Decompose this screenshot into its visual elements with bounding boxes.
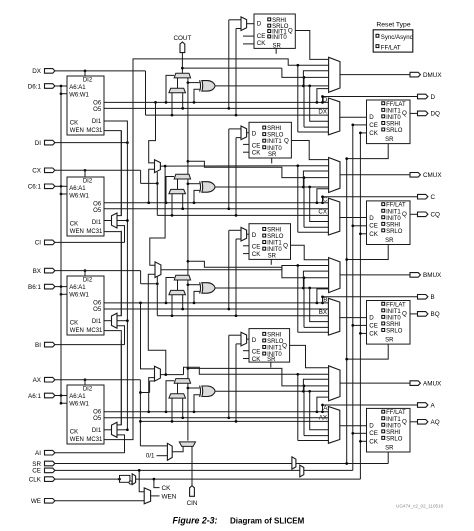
wire Q C to CQ pin (410, 213, 418, 215)
svg-text:COUT: COUT (173, 35, 191, 42)
carry mux MUXCY B (174, 275, 190, 280)
svg-text:INIT0: INIT0 (386, 423, 401, 429)
wire O6 D (104, 101, 328, 103)
wire MC31 to DFFMUX (297, 65, 299, 132)
wire LUT D MC31 (104, 131, 121, 216)
svg-text:SRLO: SRLO (267, 234, 284, 240)
svg-text:INIT0: INIT0 (386, 216, 401, 222)
svg-text:SR: SR (385, 446, 394, 452)
svg-text:Q: Q (402, 418, 407, 425)
wire O5 C (104, 208, 328, 210)
polarity mux CE (300, 465, 304, 477)
wire D6:1 to A6:A1/W6:W1 (55, 85, 61, 87)
svg-text:CIN: CIN (187, 500, 198, 507)
input mux B5FF (241, 227, 247, 241)
wire F8MUX out (161, 266, 329, 270)
svg-text:SRHI: SRHI (267, 332, 282, 338)
wires B5FF input mux (247, 233, 249, 235)
shift mux DI1 C (112, 213, 118, 228)
svg-text:0/1: 0/1 (146, 452, 155, 459)
svg-text:CX: CX (318, 209, 327, 216)
output pin D (418, 94, 428, 99)
FF input mux BFFMUX (328, 298, 339, 335)
carry mux MUXCY D (174, 73, 190, 78)
wire Q C5FF to OUTMUX (291, 141, 328, 160)
wire AX line (84, 378, 87, 381)
input mux C5FF (241, 126, 247, 140)
wire Q A5FF to OUTMUX (290, 345, 329, 367)
svg-text:FF/LAT: FF/LAT (386, 102, 406, 108)
svg-text:CE: CE (369, 430, 378, 437)
shift mux DI1 A (112, 422, 118, 437)
svg-text:DI1: DI1 (92, 119, 102, 125)
wire COUT (181, 53, 183, 73)
wire A MC31 to DOUTMUX (104, 59, 329, 440)
wire DI1 B (104, 320, 112, 322)
C6LUT C (67, 177, 104, 236)
wire DI1 A (104, 429, 112, 431)
svg-text:CQ: CQ (431, 212, 441, 219)
wire Q A to AQ pin (410, 421, 418, 423)
wire AI line (55, 452, 125, 454)
B6LUT B (67, 276, 104, 335)
wire O6 riser to COUTMUX (316, 201, 319, 204)
stub CE CFF (353, 225, 367, 227)
mux WEN gate (144, 488, 150, 504)
svg-text:FF/LAT: FF/LAT (381, 45, 401, 52)
wire O6 riser to C pin (323, 197, 418, 203)
wire AX dropped row (140, 420, 328, 422)
svg-text:A6:1: A6:1 (28, 393, 41, 400)
svg-text:Reset Type: Reset Type (376, 22, 410, 29)
svg-text:BQ: BQ (431, 311, 440, 318)
wire O5 A (104, 417, 328, 419)
svg-text:INIT0: INIT0 (386, 315, 401, 321)
svg-text:INIT1: INIT1 (386, 108, 401, 114)
svg-text:CE: CE (369, 122, 378, 129)
output mux BOUTMUX (329, 258, 340, 293)
wires F8MUX inputs (150, 166, 165, 265)
svg-text:CE: CE (369, 322, 378, 329)
A6LUT A (67, 385, 104, 444)
svg-text:O5: O5 (93, 107, 102, 113)
svg-text:DI2: DI2 (83, 78, 93, 84)
svg-text:A6:A1: A6:A1 (69, 186, 86, 192)
svg-text:SRHI: SRHI (272, 18, 287, 24)
svg-text:CE: CE (369, 223, 378, 230)
FF input mux DFFMUX (328, 98, 339, 135)
stub CE C5FF (243, 143, 249, 145)
svg-text:CE: CE (252, 244, 261, 251)
wire CMUX output (340, 174, 410, 176)
svg-text:CE: CE (257, 33, 266, 40)
svg-text:SR: SR (272, 43, 281, 49)
XOR gate D (202, 81, 215, 92)
wire CE net (55, 469, 353, 471)
stub CE AFF (353, 432, 367, 434)
wire Q D to DQ pin (410, 112, 418, 114)
wire O6 riser to B pin (323, 297, 418, 303)
svg-text:CMUX: CMUX (423, 172, 442, 179)
svg-text:CX: CX (32, 168, 42, 175)
svg-text:AMUX: AMUX (423, 380, 442, 387)
svg-text:D: D (252, 337, 257, 344)
wire XOR out D (216, 85, 329, 87)
wire SR stub DFF (347, 144, 389, 159)
wire BMUX output (340, 274, 410, 276)
svg-text:Q: Q (283, 243, 288, 250)
svg-text:DI2: DI2 (83, 278, 93, 284)
svg-text:Q: Q (288, 28, 293, 35)
storage element A5FF (249, 329, 290, 363)
wire CK net (55, 478, 120, 480)
svg-text:CI: CI (35, 240, 42, 247)
svg-text:SRLO: SRLO (386, 229, 403, 235)
svg-text:CK: CK (369, 231, 378, 238)
wire SR stub BFF (347, 344, 389, 359)
stub SR C5FF (271, 158, 273, 163)
wire 0/1 mux to CYINIT (172, 446, 183, 451)
wire O5 D (104, 107, 328, 109)
input pin BX (45, 268, 55, 273)
stub CK DFF (360, 132, 366, 134)
output pin AQ (418, 420, 428, 425)
input pin A6:1 (45, 393, 55, 398)
wire Q B to BQ pin (410, 313, 418, 315)
wire SR stub CFF (347, 245, 389, 260)
svg-text:A6:A1: A6:A1 (69, 394, 86, 400)
svg-text:CK: CK (70, 320, 78, 326)
XOR gate A (202, 386, 215, 397)
D6LUT D (67, 76, 104, 135)
svg-text:C: C (323, 197, 328, 204)
svg-text:DI2: DI2 (83, 179, 93, 185)
input pin CE (45, 468, 55, 473)
svg-text:FF/LAT: FF/LAT (386, 302, 406, 308)
svg-text:Figure 2-3:: Figure 2-3: (173, 516, 218, 526)
svg-text:INIT0: INIT0 (267, 247, 282, 253)
svg-text:INIT0: INIT0 (267, 146, 282, 152)
svg-text:B: B (431, 294, 435, 301)
svg-text:D: D (252, 232, 257, 239)
output mux DOUTMUX (329, 57, 340, 92)
output pin C (418, 194, 428, 199)
mux 0/1 select (167, 443, 172, 460)
svg-text:C6:1: C6:1 (28, 184, 42, 191)
svg-text:SRLO: SRLO (386, 329, 403, 335)
svg-text:INIT1: INIT1 (267, 241, 282, 247)
svg-text:CLK: CLK (29, 476, 42, 483)
wire O6 C (104, 202, 328, 204)
svg-text:SR: SR (267, 357, 276, 363)
svg-text:CK: CK (252, 356, 261, 363)
wire DX dropped row (146, 114, 329, 116)
wire DI line (55, 142, 127, 144)
input pin WE (45, 499, 55, 504)
wire Q D5FF to OUTMUX (295, 31, 328, 60)
svg-text:A6:A1: A6:A1 (69, 85, 86, 91)
wires WEN gate inputs (139, 470, 144, 491)
storage element B5FF (249, 224, 291, 260)
svg-text:DI: DI (35, 140, 42, 147)
wire 0/1 stub (157, 455, 168, 457)
input pin BI (45, 342, 55, 347)
wire WE (55, 500, 144, 502)
svg-text:O5: O5 (93, 208, 102, 214)
output pin DQ (418, 111, 428, 116)
FF input mux CFFMUX (328, 198, 339, 235)
svg-text:INIT1: INIT1 (386, 309, 401, 315)
svg-text:AQ: AQ (431, 419, 440, 426)
wire MC31 C (104, 232, 121, 316)
XOR gate C (202, 182, 215, 193)
stub CE A5FF (243, 350, 249, 352)
stub SR A5FF (270, 362, 272, 367)
svg-text:CK: CK (70, 221, 78, 227)
svg-text:D: D (369, 314, 374, 321)
input pin B6:1 (45, 284, 55, 289)
input pin AI (45, 450, 55, 455)
svg-text:BX: BX (33, 268, 42, 275)
wire O6 B (104, 302, 328, 304)
svg-text:DQ: DQ (431, 111, 441, 118)
svg-text:SR: SR (385, 238, 394, 244)
wire F7AMUX out (160, 374, 183, 376)
svg-text:WE: WE (31, 498, 41, 505)
svg-text:SR: SR (268, 254, 277, 260)
wire B6:1 to A6:A1/W6:W1 (55, 286, 61, 288)
svg-text:Q: Q (402, 211, 407, 218)
svg-text:DI1: DI1 (92, 319, 102, 325)
input pin CLK (45, 477, 55, 482)
wires DI1 mux inputs A (117, 340, 121, 425)
svg-text:CK: CK (70, 429, 78, 435)
FF input mux AFFMUX (328, 407, 339, 444)
svg-text:W6:W1: W6:W1 (69, 193, 89, 199)
output pin AMUX (410, 381, 420, 386)
wire AMUX output (340, 382, 410, 384)
svg-text:MC31: MC31 (86, 229, 103, 235)
storage element BFF/LAT (367, 301, 411, 345)
input pin DX (45, 69, 55, 74)
stub CK C5FF (243, 151, 249, 153)
svg-text:CK: CK (252, 150, 261, 157)
input pin CI (45, 240, 55, 245)
wire BX line (84, 269, 87, 272)
svg-text:WEN: WEN (70, 328, 84, 334)
wire O6 riser to BOUTMUX (316, 302, 319, 305)
stub CK CFF (360, 233, 366, 235)
svg-text:A6:A1: A6:A1 (69, 285, 86, 291)
svg-text:CK: CK (369, 330, 378, 337)
shift mux DI1 B (112, 313, 118, 328)
svg-text:W6:W1: W6:W1 (69, 292, 89, 298)
svg-text:CK: CK (162, 485, 172, 492)
svg-text:O6: O6 (93, 409, 102, 415)
mux F7BMUX (155, 160, 161, 173)
svg-text:DI2: DI2 (83, 387, 93, 393)
svg-text:SRHI: SRHI (267, 126, 282, 132)
wire BX dropped row (157, 315, 328, 317)
svg-text:AX: AX (33, 377, 42, 384)
wire carry chain C to D (187, 78, 189, 174)
svg-text:D: D (369, 215, 374, 222)
svg-text:CE: CE (252, 142, 261, 149)
stub CE B5FF (243, 245, 249, 247)
svg-text:CK: CK (257, 40, 266, 47)
wires F7AMUX inputs (139, 302, 142, 305)
svg-text:D: D (323, 96, 328, 103)
wire CY branch D (182, 67, 282, 69)
svg-text:O6: O6 (93, 300, 102, 306)
svg-text:D: D (257, 21, 262, 28)
wire O6 riser to A pin (323, 405, 418, 412)
wire CI line (55, 241, 125, 243)
svg-text:SRHI: SRHI (386, 122, 401, 128)
carry mux MUXCY C (174, 174, 190, 179)
svg-text:D: D (252, 131, 257, 138)
wire carry chain A to B (187, 280, 189, 379)
input mux A5FF (241, 332, 247, 346)
svg-text:DX: DX (32, 68, 42, 75)
svg-text:BMUX: BMUX (423, 272, 442, 279)
svg-text:INIT0: INIT0 (272, 35, 287, 41)
wire CYINIT to A (187, 383, 189, 440)
wires carry cell B (166, 278, 174, 303)
wire XOR out B (216, 287, 329, 289)
svg-text:Sync/Async: Sync/Async (381, 34, 413, 41)
wire O6 riser to AOUTMUX (316, 410, 319, 413)
stub SR D5FF (275, 48, 277, 53)
svg-text:SRLO: SRLO (267, 133, 284, 139)
svg-text:INIT0: INIT0 (386, 115, 401, 121)
wire A6:1 to A6:A1/W6:W1 (55, 395, 61, 397)
storage element AFF/LAT (367, 408, 411, 452)
svg-text:C: C (431, 194, 436, 201)
stub CK D5FF (243, 43, 254, 45)
svg-text:SR: SR (385, 338, 394, 344)
wire C6:1 to A6:A1/W6:W1 (55, 185, 61, 187)
carry DI mux A (169, 394, 186, 398)
wire CIN (191, 446, 193, 485)
svg-text:D: D (369, 114, 374, 121)
wire DMUX output (340, 74, 410, 76)
input pin SR (45, 461, 55, 466)
svg-text:SRHI: SRHI (386, 322, 401, 328)
wires carry cell A (166, 381, 174, 412)
svg-text:INIT1: INIT1 (267, 139, 282, 145)
stub CE BFF (353, 324, 367, 326)
svg-text:DI1: DI1 (92, 220, 102, 226)
clock inverter option box (118, 478, 121, 481)
svg-text:O5: O5 (93, 416, 102, 422)
svg-text:O6: O6 (93, 100, 102, 106)
output pin CQ (418, 212, 428, 217)
wire BI line (55, 344, 125, 346)
svg-text:UG474_c2_02_110510: UG474_c2_02_110510 (396, 504, 444, 509)
wire D to FF C (340, 217, 367, 219)
svg-text:SR: SR (268, 152, 277, 158)
output mux AOUTMUX (329, 366, 340, 401)
svg-text:SRHI: SRHI (267, 228, 282, 234)
wire O6 A (104, 411, 328, 413)
svg-text:Q: Q (284, 138, 289, 145)
svg-text:MC31: MC31 (86, 328, 103, 334)
label WEN out (151, 495, 160, 497)
svg-text:SRHI: SRHI (386, 430, 401, 436)
carry DI mux D (169, 88, 186, 92)
svg-text:AI: AI (35, 450, 41, 457)
wire SR stub AFF (387, 452, 389, 464)
svg-text:INIT1: INIT1 (386, 417, 401, 423)
stub CE DFF (353, 124, 367, 126)
wires D5FF input mux (247, 23, 254, 25)
wire CY branch B (187, 260, 190, 263)
wires DI1 mux inputs C (117, 131, 121, 216)
wire Q B5FF to OUTMUX (291, 245, 329, 259)
svg-text:W6:W1: W6:W1 (69, 401, 89, 407)
stub CK B5FF (243, 253, 249, 255)
mux F7AMUX (155, 366, 161, 381)
svg-text:MC31: MC31 (86, 437, 103, 443)
svg-text:D: D (431, 94, 436, 101)
stub CE D5FF (243, 35, 254, 37)
wire XOR out A (216, 390, 329, 392)
input pin CX (45, 168, 55, 173)
svg-text:Q: Q (402, 110, 407, 117)
input pin DI (45, 140, 55, 145)
wires carry cell C (166, 177, 174, 203)
carry mux MUXCY A (174, 379, 190, 384)
storage element DFF/LAT (367, 100, 411, 144)
output pin BQ (418, 312, 428, 317)
svg-text:DMUX: DMUX (423, 72, 442, 79)
svg-text:D: D (369, 422, 374, 429)
wires A5FF input mux (247, 338, 249, 340)
wires carry cell D (166, 75, 174, 102)
output pin A (418, 403, 428, 408)
svg-text:CK: CK (252, 251, 261, 258)
svg-text:B6:1: B6:1 (28, 284, 41, 291)
wire CX line (84, 169, 87, 172)
wire SR net (55, 463, 347, 465)
wire O6 riser to DOUTMUX (316, 101, 319, 104)
wire F7BMUX out (160, 165, 328, 167)
svg-text:WEN: WEN (70, 229, 84, 235)
svg-text:Diagram of SLICEM: Diagram of SLICEM (230, 517, 305, 526)
wire carry chain B to C (187, 179, 189, 275)
mux F8MUX (155, 262, 161, 278)
stub CK A5FF (243, 358, 249, 360)
wire LUT D DI1 (104, 121, 127, 143)
wire XOR out C (216, 186, 329, 188)
carry DI mux C (169, 189, 186, 193)
svg-text:SRHI: SRHI (386, 222, 401, 228)
carry init mux CYINIT (179, 442, 195, 447)
output pin DMUX (410, 72, 420, 77)
wires DI1 mux inputs B (117, 231, 121, 316)
XOR gate B (202, 283, 215, 294)
svg-text:CE: CE (32, 468, 41, 475)
output pin BMUX (410, 273, 420, 278)
svg-text:CK: CK (369, 130, 378, 137)
wire O5 B (104, 308, 328, 310)
wire O6 riser to D pin (323, 97, 418, 103)
wires F7BMUX inputs (154, 101, 157, 104)
output pin B (418, 295, 428, 300)
label CK tap (153, 478, 156, 481)
wire DI1 C (104, 220, 112, 222)
